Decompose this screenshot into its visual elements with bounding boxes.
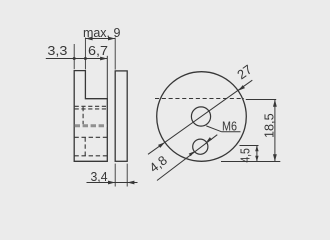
leader underline: M6 <box>221 131 240 133</box>
leader line: M6 <box>206 126 221 132</box>
extension line: screw axis right <box>246 99 276 101</box>
svg-text:M6: M6 <box>222 118 237 133</box>
hidden edge: cavity left vertical <box>84 137 86 156</box>
extension line: plate left face <box>114 38 116 70</box>
extension line: bottom face right <box>221 161 280 163</box>
svg-text:3,3: 3,3 <box>47 43 67 58</box>
dimension line: 4,5 <box>255 146 258 162</box>
hidden edge: screw shank vertical <box>82 107 84 125</box>
svg-text:max. 9: max. 9 <box>83 26 121 40</box>
dimension line: 3,3 / 6,7 <box>46 57 108 61</box>
hidden edge: cavity top <box>74 136 107 138</box>
front view: centre hole M6 <box>191 107 210 126</box>
dimension line: diameter 4,8 diagonal <box>157 135 217 181</box>
front view: lower hole 4,8 <box>193 139 208 154</box>
hidden edge: spring washer (thick grey dashes) <box>75 124 107 127</box>
svg-text:4,5: 4,5 <box>237 148 252 163</box>
svg-text:3,4: 3,4 <box>91 169 108 184</box>
extension line: body left face <box>73 44 75 69</box>
hidden edge: cavity bottom <box>74 155 107 157</box>
dimension line: 3,4 <box>87 181 138 185</box>
centreline: dashed screw axis <box>155 98 244 100</box>
extension line: slot left face <box>84 38 86 70</box>
side view: clamp body outline <box>74 71 107 162</box>
dimension line: max. 9 <box>85 37 115 41</box>
dimension line: 18,5 <box>273 100 277 162</box>
extension line: plate left face bottom <box>114 164 116 187</box>
extension line: slot right face <box>106 56 108 99</box>
svg-text:6,7: 6,7 <box>88 43 108 58</box>
svg-text:18,5: 18,5 <box>261 113 276 138</box>
side view: clamping plate <box>115 71 127 161</box>
front view: disc outline circle <box>157 72 247 162</box>
hidden edge: thread line 2 <box>75 108 107 110</box>
extension line: lower hole axis <box>240 145 259 147</box>
extension line: plate right face bottom <box>126 164 128 187</box>
hidden edge: thread line 1 <box>75 105 107 107</box>
dimension line: diameter 27 diagonal <box>148 80 252 154</box>
